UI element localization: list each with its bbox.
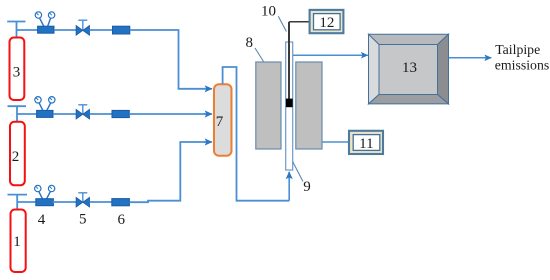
furnace left block (256, 62, 281, 149)
svg-text:2: 2 (12, 149, 20, 165)
wire: cyl3 stem to regulator (17, 29, 39, 31)
mass flow controller 6 (112, 199, 130, 206)
wire: regulator to valve 5 (53, 201, 76, 203)
svg-text:4: 4 (38, 212, 46, 228)
svg-text:5: 5 (79, 212, 87, 228)
pointer line label 8 (255, 48, 264, 62)
wire: regulator to valve (row 2) (53, 113, 76, 115)
arrow into mixer (row 2) (204, 113, 212, 115)
arrow reactor outlet to box 13 (293, 54, 368, 56)
gas cylinder 3 (10, 38, 25, 101)
cylinder valve T (cyl 2) (8, 106, 27, 122)
cylinder valve T (cyl 1) (8, 195, 28, 210)
svg-text:1: 1 (13, 234, 21, 250)
thermocouple 10 stem (288, 22, 290, 99)
svg-text:10: 10 (261, 4, 276, 20)
svg-text:13: 13 (402, 60, 417, 76)
instrument box 12 (310, 10, 344, 33)
pointer line label 10 (278, 16, 286, 31)
furnace right block (296, 62, 322, 149)
wire: valve to MFC (row 2) (90, 113, 113, 115)
mass flow controller (row 1) (113, 26, 130, 34)
pressure regulator (row 1) (35, 12, 55, 33)
svg-text:3: 3 (13, 65, 21, 81)
analyzer box 13 (3D frame) (369, 34, 449, 104)
wire: MFC row3 right, up and into mixer (129, 142, 209, 202)
svg-text:6: 6 (118, 212, 126, 228)
pressure regulator 4 (35, 185, 55, 205)
wire: thermocouple to box 12 (289, 21, 310, 23)
arrow into mixer (row 1) (204, 88, 212, 90)
shut-off valve (row 1) (76, 20, 89, 35)
instrument box 11 (349, 131, 383, 154)
pressure regulator (row 2) (35, 97, 55, 118)
arrow box 13 to tailpipe emissions (449, 57, 492, 59)
gas cylinder 2 (10, 122, 25, 186)
svg-text:11: 11 (359, 136, 373, 152)
pointer line label 9 (293, 162, 303, 182)
shut-off valve (row 2) (76, 105, 89, 119)
svg-text:emissions: emissions (495, 58, 549, 73)
arrow into mixer (row 3) (204, 141, 212, 143)
svg-text:9: 9 (303, 179, 311, 195)
wire: MFC row2 straight into mixer (129, 113, 209, 115)
shut-off valve 5 (76, 193, 89, 207)
wire: mixer outlet up, over, down and to reactor inlet (223, 67, 290, 201)
svg-text:Tailpipe: Tailpipe (495, 42, 540, 57)
wire: furnace to box 11 (322, 141, 349, 143)
wire: cyl1 stem to regulator (17, 201, 36, 203)
quartz reactor tube 9 (286, 42, 293, 170)
wire: valve 5 to MFC 6 (90, 201, 112, 203)
arrow into reactor tube bottom (288, 172, 290, 201)
wire: MFC row1 to corner, down and into mixer (130, 30, 210, 89)
catalyst sample (black) (286, 99, 293, 108)
wire: cyl2 stem to regulator (17, 113, 37, 115)
svg-text:7: 7 (216, 114, 224, 130)
wire: regulator to valve (row 1) (54, 29, 76, 31)
svg-text:8: 8 (246, 35, 254, 51)
gas cylinder 1 (11, 210, 26, 273)
mixer 7 (214, 84, 232, 156)
svg-text:12: 12 (319, 15, 334, 31)
mass flow controller (row 2) (112, 110, 129, 117)
cylinder valve T (cyl 3) (7, 22, 25, 38)
wire: valve to MFC (row 1) (90, 29, 113, 31)
